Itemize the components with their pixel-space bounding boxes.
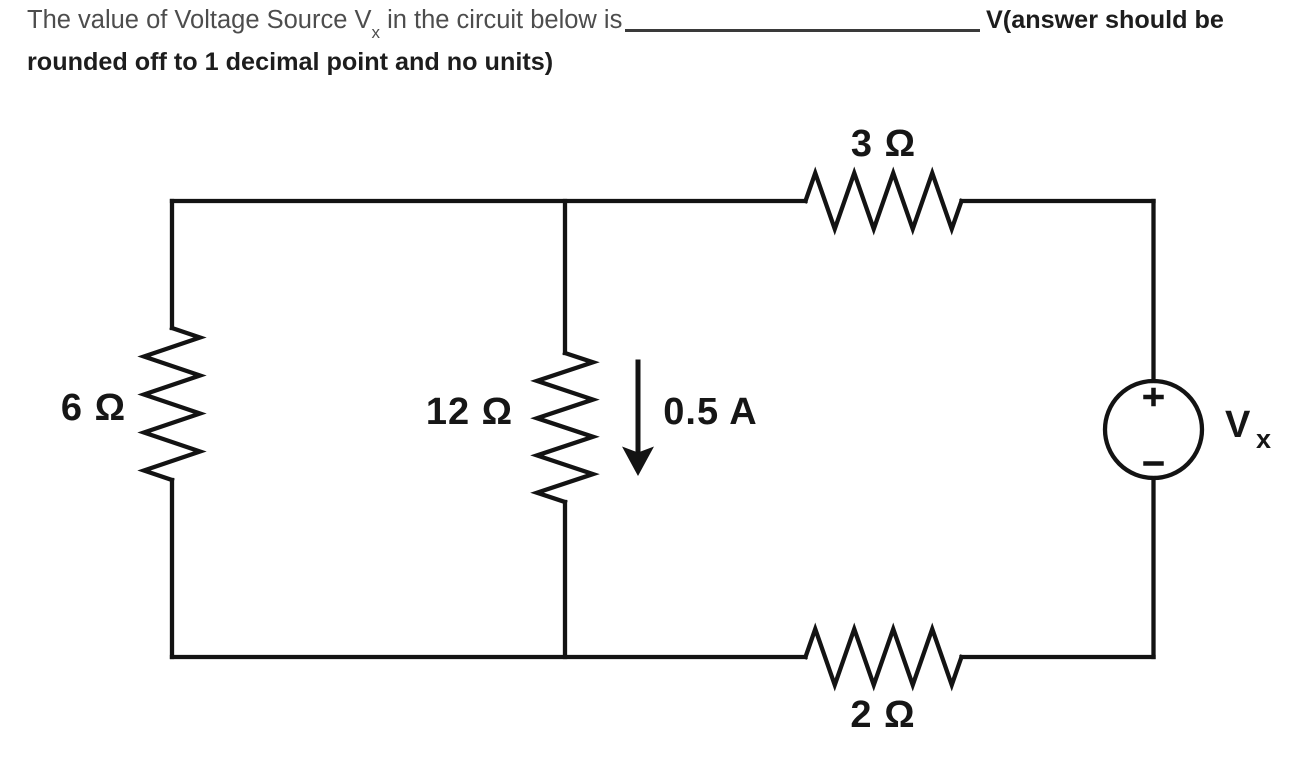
voltage source plus terminal	[1146, 390, 1162, 404]
svg-text:x: x	[1256, 424, 1272, 454]
svg-text:6 Ω: 6 Ω	[61, 387, 126, 429]
svg-text:2 Ω: 2 Ω	[850, 694, 915, 736]
wire: middle branch lower	[563, 502, 567, 657]
svg-text:3 Ω: 3 Ω	[851, 123, 916, 165]
wire: top right segment	[962, 199, 1154, 203]
resistor R3 3ohm zigzag (top)	[806, 173, 962, 229]
wire: bottom right segment	[962, 655, 1154, 659]
current arrow 0.5A head	[622, 447, 654, 477]
svg-text:V: V	[1225, 404, 1251, 446]
current arrow 0.5A shaft	[636, 362, 641, 452]
question text line 1	[27, 6, 622, 35]
wire: left branch upper	[170, 201, 174, 328]
svg-text:12 Ω: 12 Ω	[426, 391, 513, 433]
wire: left branch lower	[170, 480, 174, 657]
question text line 2	[27, 48, 553, 77]
voltage source minus terminal	[1146, 461, 1162, 466]
svg-text:0.5 A: 0.5 A	[663, 391, 757, 433]
blank answer underline	[625, 29, 980, 32]
resistor R4 2ohm zigzag (bottom)	[806, 629, 962, 685]
voltage source Vx circle	[1105, 381, 1202, 478]
wire: top left segment	[172, 199, 806, 203]
resistor R2 12ohm zigzag	[537, 353, 593, 502]
wire: right branch upper	[1151, 201, 1155, 381]
wire: bottom left segment	[172, 655, 806, 659]
wire: middle branch upper	[563, 201, 567, 353]
resistor R1 6ohm zigzag	[144, 328, 200, 480]
wire: right branch lower	[1151, 478, 1155, 657]
